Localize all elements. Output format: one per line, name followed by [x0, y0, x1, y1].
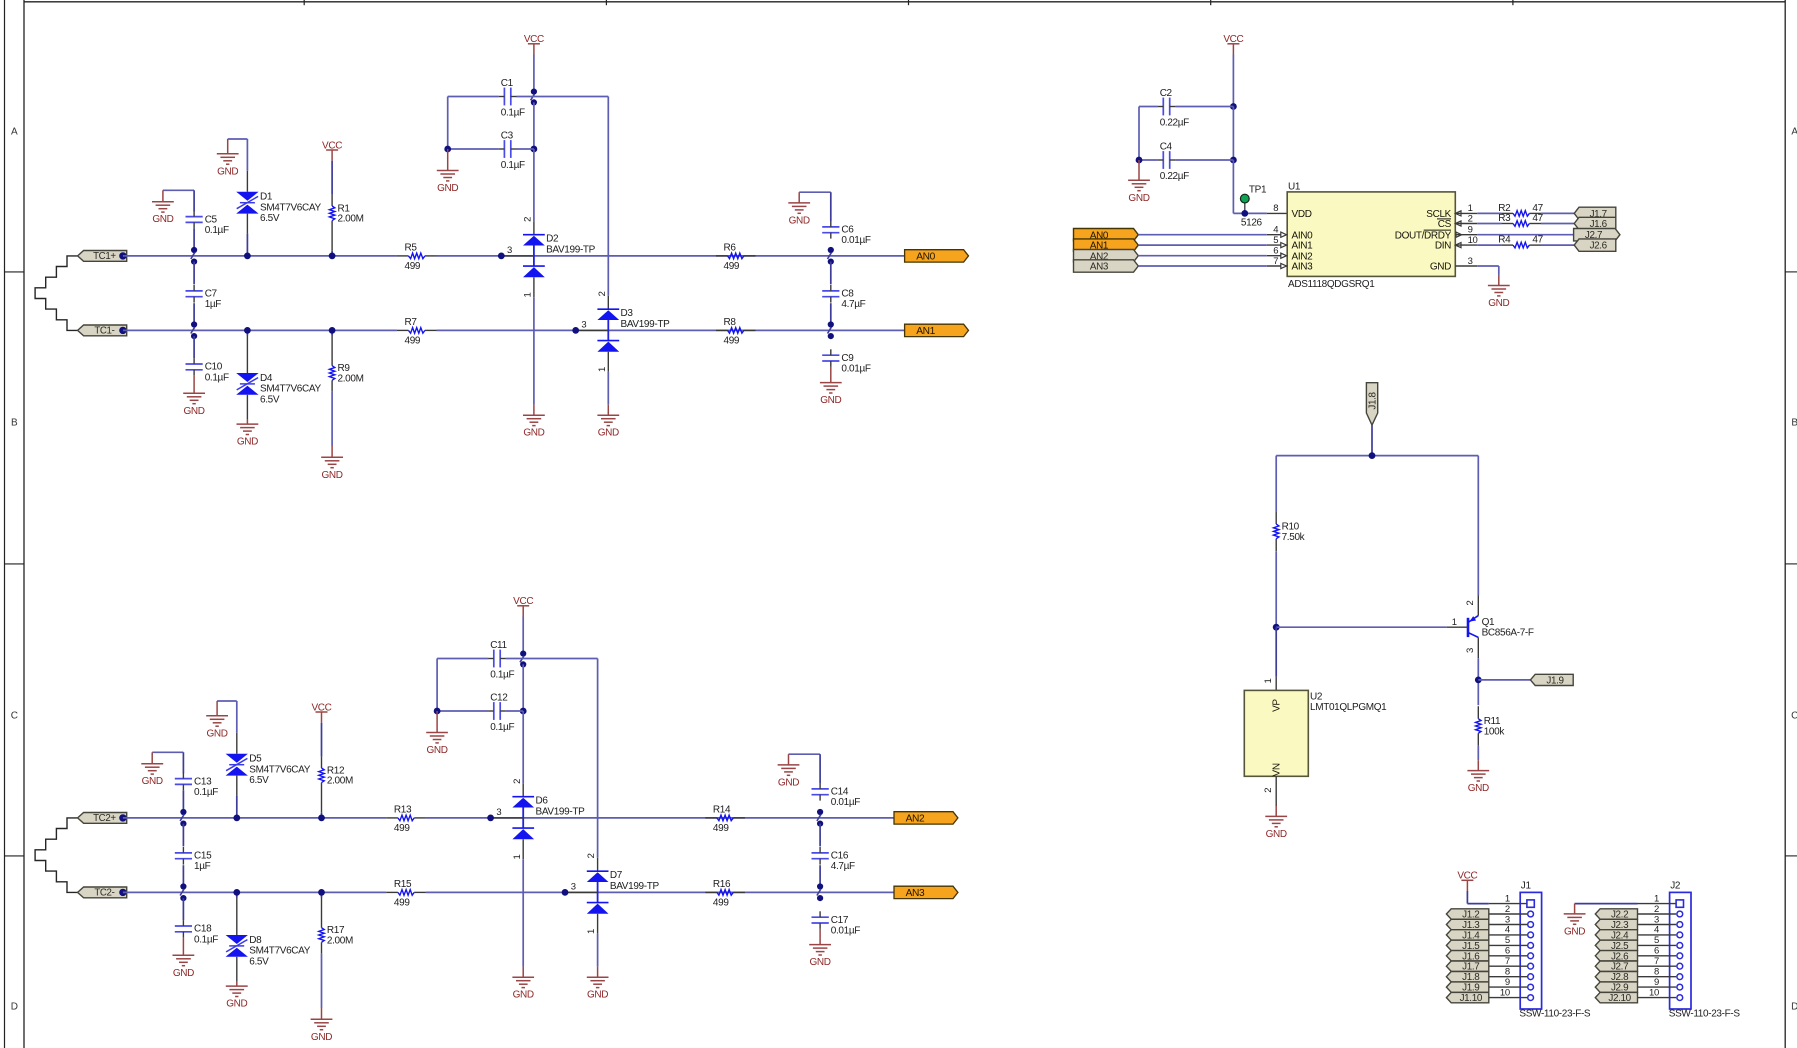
svg-text:SSW-110-23-F-S: SSW-110-23-F-S [1519, 1009, 1591, 1020]
connector J1 pin7 circle [1528, 963, 1534, 969]
lead J2 pin 2 [1638, 913, 1677, 915]
wire TC2 cap-column upper [182, 790, 184, 815]
svg-text:C18: C18 [194, 924, 212, 935]
net flag J1.9 [1530, 674, 1573, 686]
svg-text:R14: R14 [713, 805, 731, 816]
svg-text:R3: R3 [1498, 213, 1511, 224]
svg-text:GND: GND [437, 183, 458, 194]
svg-text:C8: C8 [841, 289, 854, 300]
svg-text:0.01µF: 0.01µF [831, 926, 860, 937]
U1 pin name AIN1 [1292, 241, 1314, 252]
ground at D5 [206, 701, 228, 739]
pin number J2.4 [1654, 925, 1659, 936]
lead U1 pin8 [1267, 203, 1287, 214]
lead D1 bottom pin [246, 214, 248, 234]
svg-text:2: 2 [1465, 601, 1476, 606]
svg-text:100k: 100k [1484, 726, 1506, 737]
wire D5 to wire [236, 796, 238, 818]
svg-text:0.1µF: 0.1µF [501, 160, 525, 171]
junction left at C3 [444, 146, 451, 153]
wire left bypass vertical [447, 97, 449, 150]
ground below D2 [523, 405, 545, 439]
svg-text:0.22µF: 0.22µF [1160, 171, 1189, 182]
net flag J2.5 [1595, 940, 1637, 952]
resistor R7 499 [397, 317, 437, 346]
svg-text:SSW-110-23-F-S: SSW-110-23-F-S [1669, 1009, 1741, 1020]
resistor R11 100k [1476, 706, 1506, 746]
pin number J2.6 [1654, 946, 1659, 957]
wire VCC rail to VDD [1232, 160, 1234, 213]
wire left branch to R10 [1275, 456, 1277, 512]
wire VCC rail mid [533, 102, 535, 149]
capacitor C16 4.7µF [812, 847, 856, 872]
thermocouple TC2 junction squiggle [35, 818, 78, 893]
svg-text:0.01µF: 0.01µF [841, 235, 870, 246]
svg-text:D7: D7 [610, 870, 623, 881]
svg-text:5: 5 [1273, 235, 1278, 246]
svg-text:1µF: 1µF [205, 299, 222, 310]
svg-text:BC856A-7-F: BC856A-7-F [1482, 628, 1534, 639]
net flag AN0 at U1 [1074, 229, 1139, 242]
ground below D7 [587, 967, 609, 1001]
svg-text:6.5V: 6.5V [260, 394, 280, 405]
test point TP1 [1240, 184, 1267, 228]
wire left bypass vertical [436, 659, 438, 712]
svg-text:C2: C2 [1160, 88, 1173, 99]
ground below C10 [183, 376, 205, 417]
svg-text:BAV199-TP: BAV199-TP [621, 319, 671, 330]
wire R9 to gnd [331, 392, 333, 446]
svg-text:C7: C7 [205, 289, 218, 300]
power VCC at R1 [322, 140, 342, 160]
svg-text:C13: C13 [194, 776, 212, 787]
pin number J2.5 [1654, 935, 1659, 946]
svg-text:AIN0: AIN0 [1292, 230, 1314, 241]
svg-text:3: 3 [1654, 914, 1659, 925]
svg-text:C: C [1791, 710, 1797, 721]
net flag J2.6 [1595, 951, 1637, 963]
capacitor C7 1µF [186, 285, 222, 310]
svg-text:TC2-: TC2- [94, 888, 114, 899]
svg-text:1: 1 [1263, 679, 1274, 684]
capacitor C17 0.01µF [812, 911, 861, 936]
svg-text:D5: D5 [249, 754, 262, 765]
power VCC at U1 [1223, 34, 1243, 54]
port TC1- [78, 325, 127, 337]
svg-text:GND: GND [427, 745, 448, 756]
net flag J1.10 [1446, 992, 1488, 1004]
pin number J1.10 [1500, 987, 1510, 998]
svg-text:5126: 5126 [1241, 217, 1263, 228]
lead D5 top pin [236, 733, 238, 754]
lead J2 pin 8 [1638, 976, 1677, 978]
capacitor C2 0.22µF [1158, 88, 1190, 128]
svg-text:1: 1 [523, 293, 534, 298]
svg-text:GND: GND [810, 957, 831, 968]
wire R10 to base node [1275, 551, 1277, 627]
net flag J2.3 [1595, 919, 1637, 931]
svg-text:C14: C14 [831, 787, 849, 798]
capacitor C13 0.1µF [175, 773, 218, 798]
wire C3 left [448, 148, 499, 150]
svg-text:6.5V: 6.5V [249, 775, 269, 786]
wire TC1+ right [437, 255, 905, 257]
lead J2 pin 10 [1638, 997, 1677, 999]
svg-text:CS: CS [1438, 219, 1452, 230]
ground at C14 [778, 754, 800, 788]
svg-text:8: 8 [1654, 967, 1659, 978]
resistor R15 499 [386, 879, 426, 908]
wire top horizontal run [1276, 455, 1478, 457]
wire collector to J1.9 [1478, 679, 1530, 681]
svg-text:J1.8: J1.8 [1367, 392, 1378, 410]
connector J1 pin10 circle [1528, 995, 1534, 1001]
ground below R11 [1467, 760, 1489, 794]
svg-text:5: 5 [1654, 935, 1659, 946]
wire AN2 to U1 [1138, 255, 1267, 257]
wire AN1 to U1 [1138, 244, 1267, 246]
svg-text:BAV199-TP: BAV199-TP [536, 806, 586, 817]
lead R12 top pin [321, 757, 323, 768]
junction VCC at C2 [1230, 103, 1237, 110]
capacitor C4 0.22µF [1158, 142, 1190, 182]
svg-text:499: 499 [394, 897, 410, 908]
svg-text:J1.10: J1.10 [1460, 993, 1483, 1004]
wire out column upper [830, 262, 832, 285]
svg-text:D: D [11, 1002, 18, 1013]
wire TC2+ left [123, 817, 386, 819]
lead U1 pin 6 with input arrow [1267, 253, 1287, 258]
U1 pin name VDD [1292, 209, 1312, 220]
svg-text:J2: J2 [1670, 881, 1681, 892]
svg-text:2.00M: 2.00M [338, 373, 364, 384]
node TC2- [119, 889, 126, 896]
lead J1 pin 6 [1489, 955, 1527, 957]
power VCC at J1 [1457, 871, 1477, 891]
connector J1 pin2 circle [1528, 911, 1534, 917]
net flag J2.2 [1595, 909, 1637, 921]
svg-text:0.01µF: 0.01µF [831, 797, 860, 808]
svg-text:47: 47 [1532, 213, 1543, 224]
ground below D3 [597, 405, 619, 439]
ground below C9 [820, 367, 842, 406]
lead J2 pin 3 [1638, 924, 1677, 926]
port TC2+ [78, 813, 127, 825]
svg-text:D6: D6 [536, 796, 549, 807]
op-amp U2 LMT01QLPGMQ1 body [1244, 690, 1387, 776]
lead D8 top pin [236, 898, 238, 936]
wire C3 right [517, 148, 534, 150]
svg-text:D: D [1791, 1002, 1797, 1013]
diode D7 BAV199-TP [565, 853, 659, 934]
capacitor C3 0.1µF [499, 131, 525, 171]
connector J1 pin8 circle [1528, 974, 1534, 980]
resistor R14 499 [705, 805, 745, 834]
wire VCC rail mid U1 [1232, 107, 1234, 161]
resistor R10 7.50k [1274, 512, 1306, 552]
junction TC1- at R9 [329, 327, 336, 334]
svg-text:D1: D1 [260, 192, 273, 203]
wire R1 to wire [331, 251, 333, 256]
svg-text:GND: GND [142, 776, 163, 787]
TVS diode D8 SM4T7V6CAY 6.5V [226, 935, 311, 967]
wire Q1 collector down [1477, 658, 1479, 705]
capacitor C18 0.1µF [175, 920, 218, 945]
node pin3 D6 [487, 815, 494, 822]
lead J1 pin 1 [1489, 903, 1527, 905]
svg-text:GND: GND [152, 214, 173, 225]
U1 pin name AIN3 [1292, 262, 1314, 273]
port TC2- [78, 887, 127, 899]
svg-text:VCC: VCC [524, 34, 544, 45]
lead J1 pin 7 [1489, 965, 1527, 967]
svg-text:C11: C11 [490, 640, 507, 651]
wire TC1 cap-column mid-lower [193, 303, 195, 324]
svg-text:R16: R16 [713, 879, 731, 890]
U1 pin 3 GND [1430, 256, 1477, 273]
svg-text:GND: GND [789, 215, 810, 226]
resistor R3 47 [1498, 213, 1543, 226]
junction left at C4 [1136, 157, 1143, 164]
node pin3 D2 [498, 253, 505, 260]
wire C4 right [1175, 159, 1233, 161]
lead R17 top pin [321, 898, 323, 928]
connector J1 body SSW-110-23-F-S [1519, 881, 1591, 1020]
junction J1.8 node [1369, 452, 1376, 459]
pin number J1.4 [1505, 925, 1510, 936]
wire TC2- left [123, 891, 386, 893]
svg-text:GND: GND [820, 395, 841, 406]
junction TC2+ at D5 [233, 815, 240, 822]
svg-text:C9: C9 [841, 353, 854, 364]
wire VCC rail to D2 pin2 [533, 149, 535, 221]
svg-text:0.1µF: 0.1µF [194, 787, 218, 798]
wire TC1- to D4 [246, 330, 248, 335]
TVS diode D1 SM4T7V6CAY 6.5V [236, 192, 321, 224]
wire TC1- left [123, 329, 397, 331]
svg-text:D8: D8 [249, 935, 262, 946]
svg-text:GND: GND [226, 999, 247, 1010]
junction TC1+ at D1 [244, 253, 251, 260]
wire TC1- to R9 [331, 330, 333, 335]
svg-text:0.01µF: 0.01µF [841, 364, 870, 375]
node TC1- [119, 327, 126, 334]
ground below U2 [1265, 806, 1287, 840]
svg-text:C16: C16 [831, 851, 849, 862]
svg-text:3: 3 [1465, 648, 1476, 653]
svg-text:4: 4 [1505, 925, 1510, 936]
svg-text:6.5V: 6.5V [249, 956, 269, 967]
svg-text:1µF: 1µF [194, 861, 211, 872]
connector J1 pin1 square pad [1527, 900, 1534, 907]
wire TC1 cap-column lower [193, 336, 195, 358]
svg-text:C17: C17 [831, 915, 849, 926]
wire DIN to R4 [1477, 244, 1501, 246]
wire R11 to gnd [1477, 746, 1479, 760]
capacitor C6 0.01µF [822, 221, 871, 246]
wire right branch to Q1 emitter [1477, 456, 1479, 596]
U1 pin number 6 [1273, 246, 1278, 257]
wire DOUT/DRDY to J2.7 [1477, 234, 1573, 236]
svg-text:2: 2 [597, 291, 608, 296]
net flag J2.6 [1574, 239, 1616, 252]
wire TC2 cap-column gnd corner [152, 752, 183, 773]
lead U2 pin2 [1263, 776, 1276, 806]
junction collector node [1475, 677, 1482, 684]
svg-text:499: 499 [724, 261, 740, 272]
svg-text:499: 499 [724, 335, 740, 346]
wire D3 pin1 to gnd [607, 372, 609, 405]
svg-text:J2.6: J2.6 [1590, 241, 1608, 252]
lead J1 pin 10 [1489, 997, 1527, 999]
lead J1 pin 9 [1489, 986, 1527, 988]
lead U2 pin1 [1263, 677, 1276, 691]
connector J2 pin4 circle [1677, 932, 1683, 938]
wire C11 right [506, 658, 523, 660]
svg-text:GND: GND [1266, 829, 1287, 840]
svg-text:BAV199-TP: BAV199-TP [546, 244, 596, 255]
wire out column lower [819, 865, 821, 886]
wire U1 GND pin [1477, 266, 1499, 275]
svg-text:499: 499 [405, 261, 421, 272]
svg-text:Q1: Q1 [1482, 617, 1495, 628]
svg-text:7.50k: 7.50k [1282, 532, 1306, 543]
svg-text:0.1µF: 0.1µF [205, 372, 229, 383]
svg-text:R6: R6 [724, 243, 737, 254]
port AN0 [905, 250, 969, 263]
node TC2+ [119, 814, 126, 821]
U1 pin 2 CS [1437, 213, 1477, 230]
svg-text:SM4T7V6CAY: SM4T7V6CAY [249, 764, 310, 775]
U1 pin name AIN2 [1292, 251, 1314, 262]
pin number J2.10 [1649, 987, 1659, 998]
resistor R5 499 [397, 243, 437, 272]
net flag AN3 at U1 [1074, 260, 1139, 273]
svg-text:0.1µF: 0.1µF [205, 225, 229, 236]
svg-text:J1: J1 [1521, 881, 1532, 892]
net flag J1.8 vertical [1366, 383, 1378, 425]
svg-text:GND: GND [207, 728, 228, 739]
diode D6 BAV199-TP [491, 779, 585, 860]
svg-text:GND: GND [1564, 926, 1585, 937]
svg-text:0.22µF: 0.22µF [1160, 117, 1189, 128]
connector J2 pin5 circle [1677, 943, 1683, 949]
wire VDD [1233, 212, 1266, 214]
wire TC1- right [437, 329, 905, 331]
capacitor C5 0.1µF [186, 211, 229, 236]
lead J1 pin 4 [1489, 934, 1527, 936]
wire VCC to R12 [321, 723, 323, 757]
svg-text:9: 9 [1505, 977, 1510, 988]
wire R3 to J1.6 [1541, 223, 1574, 225]
connector J2 pin2 circle [1677, 911, 1683, 917]
svg-text:VDD: VDD [1292, 209, 1312, 220]
connector J2 pin1 square pad [1676, 900, 1683, 907]
pin number J1.3 [1505, 914, 1510, 925]
svg-text:B: B [1791, 418, 1797, 429]
wire TC2- to D8 [236, 892, 238, 897]
svg-text:4.7µF: 4.7µF [831, 861, 855, 872]
svg-text:1: 1 [586, 929, 597, 934]
wire VCC rail upper [533, 55, 535, 92]
svg-text:VCC: VCC [322, 140, 342, 151]
wire R12 to wire [321, 813, 323, 818]
net flag J1.7 [1446, 961, 1488, 973]
svg-text:GND: GND [237, 437, 258, 448]
wire C2 right [1175, 106, 1233, 108]
net flag J2.8 [1595, 972, 1637, 984]
svg-text:GND: GND [1468, 783, 1489, 794]
net flag AN1 at U1 [1074, 239, 1139, 252]
resistor R6 499 [716, 243, 756, 272]
net flag J1.8 [1446, 972, 1488, 984]
wire C2 left corner [1139, 107, 1158, 161]
net flag J1.6 [1574, 217, 1616, 230]
wire VCC rail upper [522, 617, 524, 654]
svg-text:2: 2 [1505, 904, 1510, 915]
connector J2 pin7 circle [1677, 963, 1683, 969]
wire GND to J2 pin1 [1575, 903, 1638, 905]
svg-text:2: 2 [1654, 904, 1659, 915]
wire out column upper [819, 824, 821, 847]
net flag J1.2 [1446, 909, 1488, 921]
wire D1 to wire [246, 234, 248, 256]
capacitor C10 0.1µF [186, 358, 229, 383]
svg-text:8: 8 [1273, 203, 1278, 214]
wire AN3 to U1 [1138, 265, 1267, 267]
svg-text:3: 3 [571, 881, 576, 892]
wire C4 left [1139, 159, 1158, 161]
junction jog C-right top [531, 89, 537, 106]
svg-text:499: 499 [394, 823, 410, 834]
U1 pin 10 DIN [1435, 235, 1478, 252]
svg-text:GND: GND [217, 166, 238, 177]
svg-text:C12: C12 [490, 693, 508, 704]
capacitor C9 0.01µF [822, 349, 871, 374]
lead J2 pin 7 [1638, 965, 1677, 967]
U1 pin name AIN0 [1292, 230, 1314, 241]
svg-text:SM4T7V6CAY: SM4T7V6CAY [260, 384, 321, 395]
svg-text:U2: U2 [1310, 691, 1323, 702]
lead R1 bottom pin [331, 221, 333, 251]
wire R4 to J2.6 [1541, 244, 1574, 246]
svg-text:2: 2 [512, 779, 523, 784]
svg-text:10: 10 [1500, 987, 1510, 998]
svg-text:VCC: VCC [513, 596, 533, 607]
svg-text:GND: GND [587, 990, 608, 1001]
connector J2 pin9 circle [1677, 984, 1683, 990]
ground below C2 C4 [1128, 160, 1150, 204]
svg-text:C10: C10 [205, 362, 223, 373]
lead R1 top pin [331, 195, 333, 206]
svg-text:7: 7 [1505, 956, 1510, 967]
wire TC1 cap-column gnd corner [163, 190, 194, 211]
wire top rail to D3 column [534, 96, 608, 98]
svg-text:6: 6 [1654, 946, 1659, 957]
svg-text:R7: R7 [405, 317, 418, 328]
pin number J1.8 [1505, 967, 1510, 978]
wire D2 pin1 to gnd [533, 297, 535, 404]
lead D8 bottom pin [236, 957, 238, 982]
lead J1 pin 5 [1489, 944, 1527, 946]
svg-text:VCC: VCC [1457, 871, 1477, 882]
pin number J2.1 [1654, 893, 1659, 904]
svg-text:C3: C3 [501, 131, 514, 142]
svg-text:0.1µF: 0.1µF [490, 722, 514, 733]
svg-text:AIN3: AIN3 [1292, 262, 1314, 273]
resistor R13 499 [386, 805, 426, 834]
TVS diode D4 SM4T7V6CAY 6.5V [236, 373, 321, 405]
